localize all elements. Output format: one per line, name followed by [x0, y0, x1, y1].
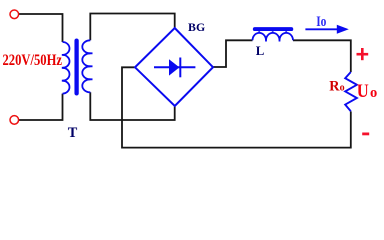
svg-text:BG: BG [188, 20, 205, 34]
svg-text:o: o [370, 85, 377, 101]
svg-text:U: U [357, 81, 369, 102]
svg-text:220V/50Hz: 220V/50Hz [3, 52, 63, 69]
svg-text:T: T [68, 125, 78, 141]
svg-text:o: o [340, 83, 345, 94]
svg-text:L: L [256, 44, 265, 58]
svg-text:Io: Io [316, 14, 326, 30]
